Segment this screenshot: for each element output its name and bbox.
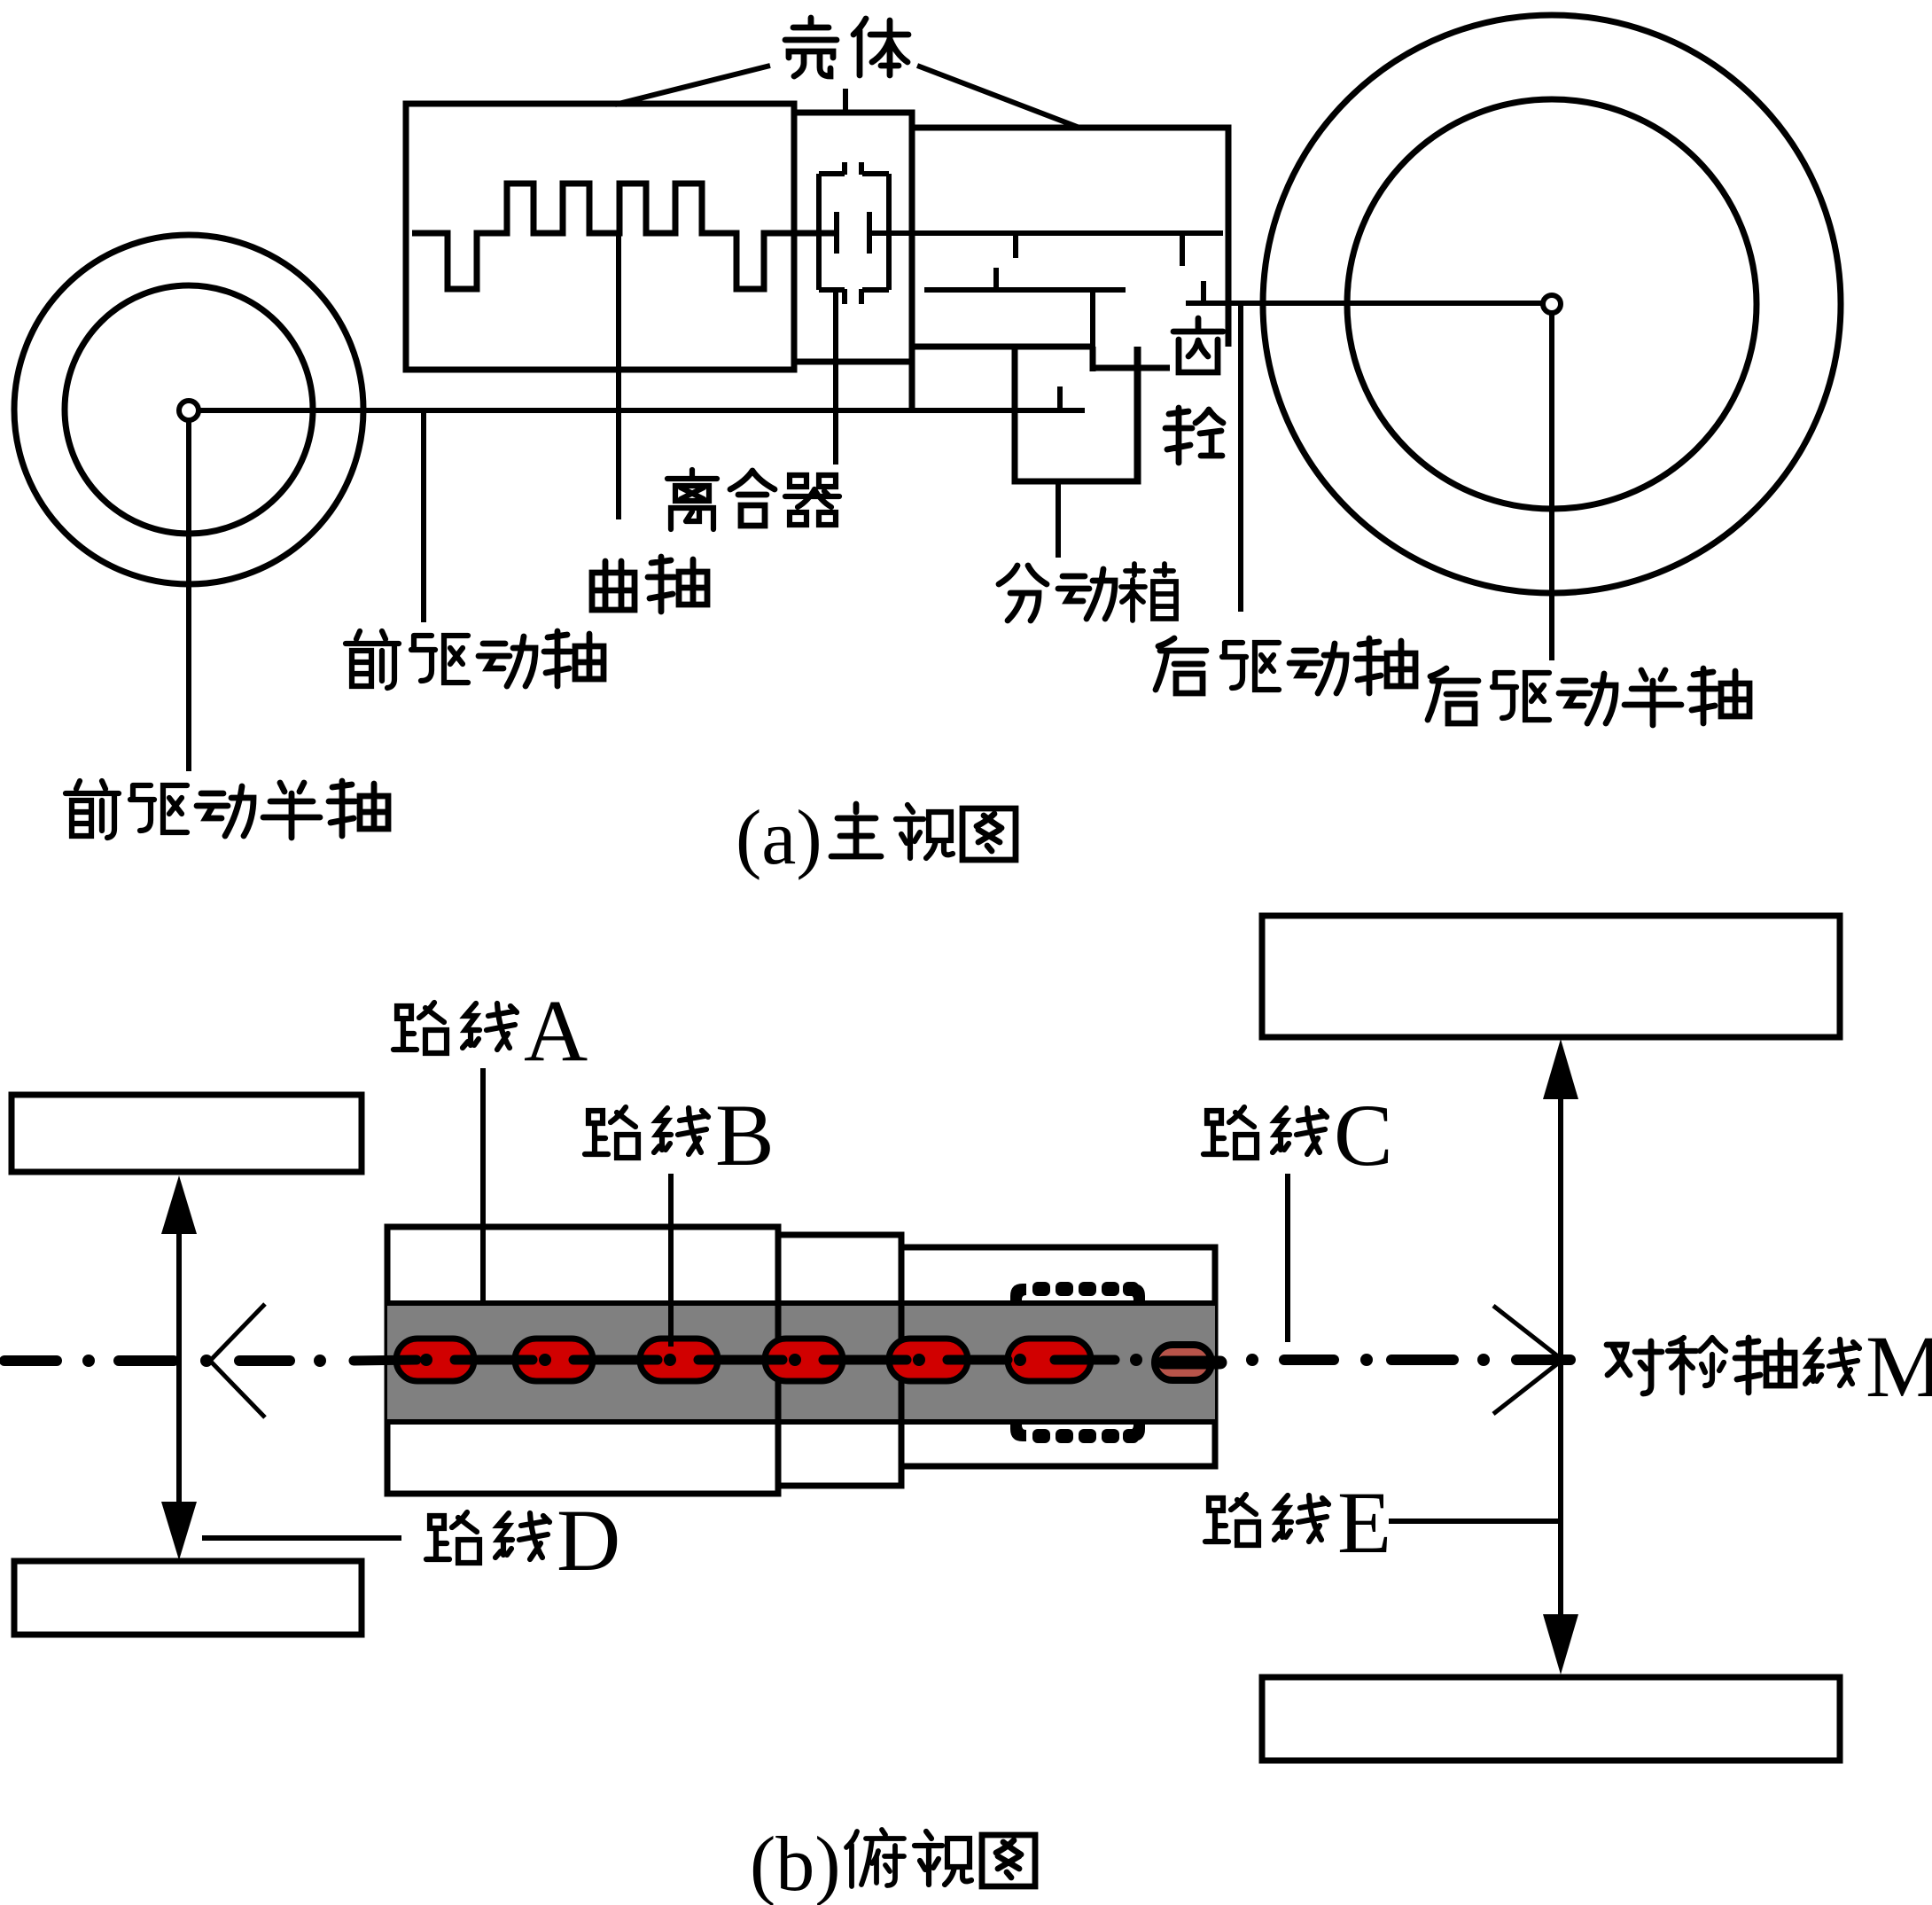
casing callout left bbox=[615, 66, 770, 105]
label 后驱动轴 bbox=[1156, 638, 1206, 693]
link 2 bbox=[515, 1339, 593, 1381]
clutch inner box top edge with gap bbox=[819, 174, 889, 290]
label 曲轴 bbox=[592, 561, 635, 610]
clutch bottom ticks bbox=[842, 289, 847, 304]
front drive shaft (wheel center to transfer case) bbox=[189, 408, 1085, 413]
open arrow right bbox=[1493, 1306, 1562, 1414]
svg-text:D: D bbox=[557, 1491, 620, 1589]
left track double arrow bbox=[176, 1210, 182, 1529]
svg-text:M: M bbox=[1866, 1317, 1932, 1416]
label 前驱动半轴 bbox=[66, 781, 119, 838]
chain bars and pins bbox=[354, 1360, 1115, 1361]
label 对称轴线M bbox=[1607, 1341, 1662, 1394]
machine body box2 bbox=[778, 1235, 901, 1486]
wheel rect bottom-left bbox=[14, 1561, 362, 1635]
rear output gear tick bbox=[1201, 281, 1206, 303]
rear half-shaft vertical bbox=[1549, 304, 1554, 660]
label 齿轮 (stacked) bbox=[1173, 318, 1223, 372]
svg-text:(b): (b) bbox=[750, 1822, 841, 1905]
front half-shaft vertical bbox=[186, 410, 191, 771]
label 前驱动轴 bbox=[346, 631, 399, 688]
wheel rect bottom-right bbox=[1262, 1677, 1840, 1761]
countershaft bbox=[924, 287, 1126, 293]
input shaft gear tick 2 bbox=[1180, 233, 1185, 266]
link 1 bbox=[396, 1339, 474, 1381]
路线D callout bbox=[202, 1535, 401, 1541]
machine body box1 bbox=[387, 1227, 778, 1494]
label 离合器 bbox=[667, 470, 717, 529]
clutch housing bbox=[794, 113, 912, 362]
transfer case label line bbox=[1056, 481, 1061, 558]
transfer case gear tick bbox=[1057, 386, 1063, 410]
wheel rect top-left bbox=[12, 1095, 362, 1172]
svg-text:B: B bbox=[715, 1086, 775, 1184]
front wheel inner circle bbox=[65, 285, 313, 534]
link 3 bbox=[640, 1339, 718, 1381]
right track double arrow bbox=[1558, 1068, 1563, 1649]
路线E callout bbox=[1389, 1519, 1561, 1524]
label 路线E bbox=[1205, 1495, 1258, 1545]
front wheel outer circle bbox=[14, 235, 363, 584]
wheel rect top-right bbox=[1262, 916, 1840, 1037]
transfer case box bbox=[1015, 347, 1138, 481]
front wheel hub bbox=[179, 401, 199, 420]
front drive shaft callout bbox=[421, 410, 426, 622]
clutch label line bbox=[833, 290, 838, 465]
casing callout right bbox=[917, 66, 1079, 128]
open arrow left bbox=[210, 1304, 265, 1417]
rear drive shaft line bbox=[1186, 301, 1552, 306]
clutch plate right bbox=[867, 212, 872, 254]
centerline M right segments bbox=[1284, 1355, 1570, 1365]
label 路线A bbox=[393, 1003, 447, 1053]
link7 inner bar bbox=[1164, 1356, 1220, 1370]
casing label 壳体 bbox=[785, 18, 837, 76]
engine block bbox=[406, 104, 794, 370]
countershaft gear tick bbox=[993, 268, 999, 290]
gray band bbox=[387, 1303, 1215, 1422]
svg-text:E: E bbox=[1337, 1473, 1391, 1572]
gray band bottom edge bbox=[387, 1419, 1215, 1425]
countershaft to gear connector bbox=[1090, 290, 1095, 371]
dashed coupling top cap bbox=[1010, 1282, 1145, 1305]
label 后驱动半轴 bbox=[1428, 668, 1478, 723]
rear wheel inner circle bbox=[1347, 99, 1757, 509]
crankshaft label line bbox=[616, 233, 621, 519]
svg-text:A: A bbox=[524, 981, 588, 1080]
svg-text:(a): (a) bbox=[736, 795, 822, 881]
路线B callout bbox=[668, 1174, 674, 1347]
svg-text:C: C bbox=[1334, 1086, 1393, 1184]
centerline M left segments bbox=[4, 1355, 290, 1366]
rear wheel hub bbox=[1543, 295, 1561, 313]
label 路线C bbox=[1204, 1107, 1257, 1158]
link 6 bbox=[1008, 1339, 1091, 1381]
label 路线B bbox=[585, 1107, 638, 1158]
chain links bbox=[396, 1339, 1211, 1381]
link 7 dark bbox=[1155, 1345, 1211, 1380]
clutch top ticks bbox=[842, 162, 847, 175]
dashed coupling bottom cap bbox=[1010, 1420, 1145, 1443]
casing callout middle bbox=[843, 89, 848, 113]
input shaft gear tick 1 bbox=[1013, 233, 1018, 258]
gray band top edge bbox=[387, 1300, 1215, 1306]
路线A callout bbox=[480, 1068, 486, 1303]
gearbox housing bbox=[912, 128, 1228, 481]
路线C callout bbox=[1285, 1174, 1290, 1342]
crankshaft square wave bbox=[412, 183, 834, 289]
clutch plate left bbox=[834, 212, 839, 254]
gearbox input shaft bbox=[871, 230, 1223, 236]
label 分动箱 bbox=[999, 566, 1047, 621]
rear wheel outer circle bbox=[1263, 15, 1841, 593]
machine body box3 bbox=[901, 1247, 1215, 1466]
link 4 bbox=[765, 1339, 843, 1381]
rear drive shaft callout bbox=[1238, 303, 1243, 612]
link 5 bbox=[889, 1339, 968, 1381]
label 路线D bbox=[426, 1512, 479, 1563]
box edges over band bbox=[775, 1235, 782, 1486]
